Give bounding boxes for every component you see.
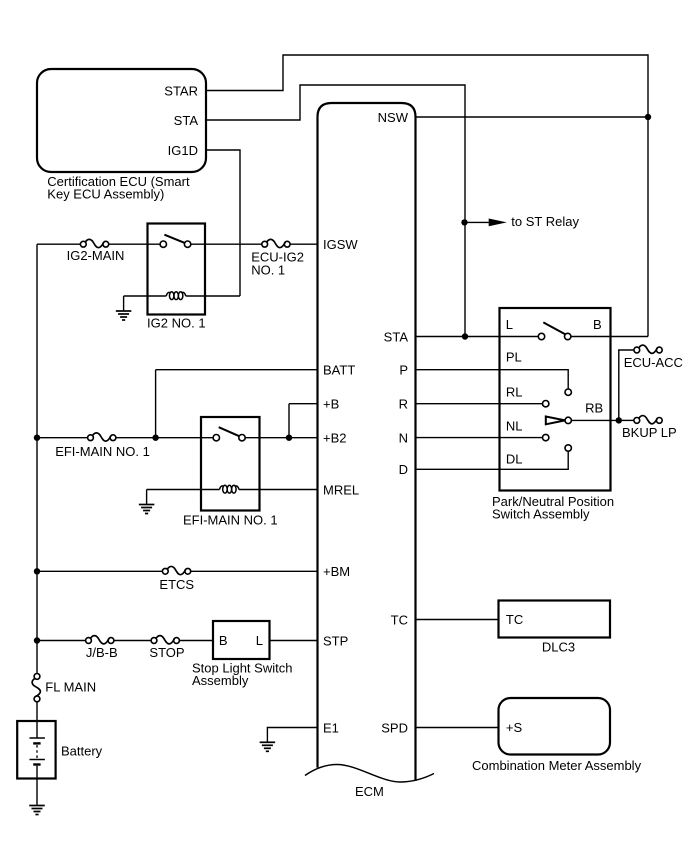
svg-text:SPD: SPD	[381, 720, 408, 735]
svg-text:BATT: BATT	[323, 362, 355, 377]
svg-text:Combination Meter Assembly: Combination Meter Assembly	[472, 758, 642, 773]
svg-text:+B2: +B2	[323, 430, 347, 445]
svg-text:EFI-MAIN NO. 1: EFI-MAIN NO. 1	[183, 512, 278, 527]
svg-text:PL: PL	[506, 350, 522, 365]
svg-text:P: P	[399, 362, 408, 377]
svg-text:STA: STA	[384, 329, 409, 344]
svg-text:Key ECU Assembly): Key ECU Assembly)	[47, 186, 164, 201]
svg-text:N: N	[399, 430, 408, 445]
svg-text:IGSW: IGSW	[323, 237, 358, 252]
svg-text:BKUP LP: BKUP LP	[622, 425, 677, 440]
svg-text:EFI-MAIN NO. 1: EFI-MAIN NO. 1	[55, 444, 150, 459]
svg-text:D: D	[399, 462, 408, 477]
svg-text:L: L	[506, 317, 513, 332]
svg-text:+B: +B	[323, 396, 339, 411]
svg-text:NO. 1: NO. 1	[251, 263, 285, 278]
svg-text:NL: NL	[506, 419, 523, 434]
svg-text:R: R	[399, 396, 408, 411]
svg-text:DLC3: DLC3	[542, 640, 575, 655]
svg-text:STA: STA	[174, 113, 199, 128]
svg-text:J/B-B: J/B-B	[86, 645, 118, 660]
svg-text:STAR: STAR	[164, 83, 198, 98]
svg-text:RB: RB	[585, 401, 603, 416]
svg-text:Battery: Battery	[61, 743, 103, 758]
svg-text:IG2-MAIN: IG2-MAIN	[67, 248, 125, 263]
svg-text:IG2 NO. 1: IG2 NO. 1	[147, 316, 206, 331]
svg-text:TC: TC	[506, 612, 523, 627]
svg-text:to ST Relay: to ST Relay	[511, 214, 579, 229]
svg-text:TC: TC	[391, 612, 408, 627]
svg-text:B: B	[593, 317, 602, 332]
svg-text:RL: RL	[506, 385, 523, 400]
svg-text:L: L	[256, 633, 263, 648]
svg-text:NSW: NSW	[378, 110, 409, 125]
svg-text:STOP: STOP	[149, 645, 184, 660]
svg-text:+S: +S	[506, 720, 523, 735]
svg-text:FL MAIN: FL MAIN	[45, 680, 96, 695]
svg-text:+BM: +BM	[323, 564, 350, 579]
svg-text:MREL: MREL	[323, 482, 359, 497]
svg-text:IG1D: IG1D	[168, 143, 198, 158]
svg-text:E1: E1	[323, 720, 339, 735]
svg-text:DL: DL	[506, 452, 523, 467]
svg-text:B: B	[219, 633, 228, 648]
svg-text:ECM: ECM	[355, 784, 384, 799]
svg-text:ECU-ACC: ECU-ACC	[624, 355, 683, 370]
svg-text:Assembly: Assembly	[192, 673, 249, 688]
svg-text:STP: STP	[323, 633, 348, 648]
svg-text:ETCS: ETCS	[159, 577, 194, 592]
svg-text:Switch Assembly: Switch Assembly	[492, 507, 590, 522]
